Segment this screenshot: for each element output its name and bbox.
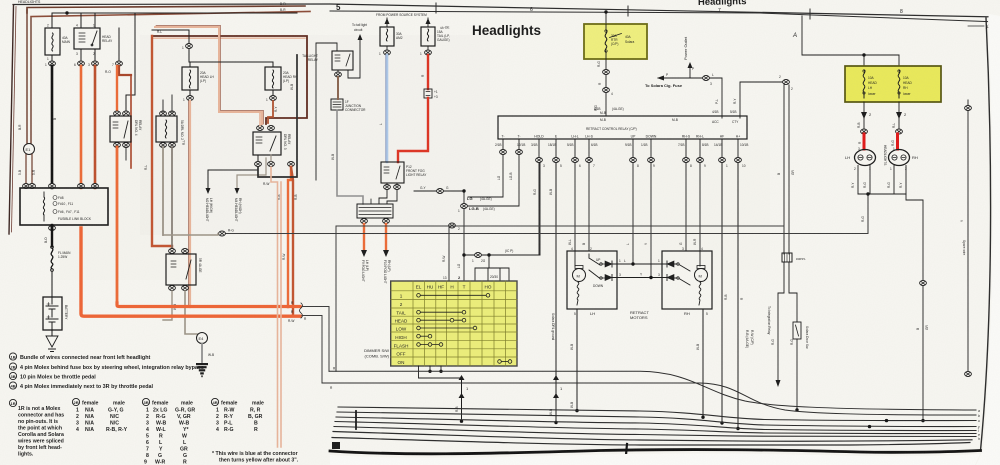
wire feeds above DRL NO.2 <box>163 95 172 112</box>
dimmer contact LOW <box>420 327 473 329</box>
wire below table HF drop <box>440 366 442 371</box>
terminals on fusible link block top <box>23 184 30 189</box>
wire thick black main feed <box>51 66 54 188</box>
wire below table EL drop <box>419 366 462 378</box>
wire drop to head relay pin1 <box>94 13 96 28</box>
wire orange feed DRL no4 <box>116 66 118 112</box>
white margin outside right frame edge <box>976 14 1000 465</box>
wire DRL3 to M4 headlight arrow <box>237 155 271 188</box>
wire LG branch <box>463 191 465 281</box>
connector pinout table 2R <box>72 398 127 433</box>
dimmer table header labels <box>394 285 492 365</box>
relay TAILLIGHT RELAY box <box>332 51 353 70</box>
wire LG-B horizontal to pin T2 <box>468 155 519 206</box>
fusible link block <box>20 188 108 225</box>
wire DRL3 orange out B <box>291 167 293 316</box>
wire G-Y node line <box>414 190 464 192</box>
wire G to RH motor <box>685 163 687 251</box>
pin stubs below retract relay <box>503 139 738 157</box>
wire R-G HOLD down to ICP <box>539 163 540 255</box>
bottom tick mid <box>626 444 627 455</box>
terminals 5R <box>169 249 176 254</box>
wire to tail light circuit with up arrow <box>348 38 360 78</box>
wire HO feed U-jog <box>475 255 509 281</box>
bus 1 break mark <box>300 303 303 318</box>
wire taillight relay feed <box>316 43 337 180</box>
dimmer contact ON <box>501 361 508 363</box>
wire L UP to motor link <box>632 163 634 264</box>
wire bundle line 3 <box>336 417 976 431</box>
wire DRL3 to M2 headlight arrow <box>208 155 258 188</box>
terminal above 20A fuse LH <box>186 44 193 49</box>
page ref A at far right <box>968 25 984 27</box>
terminal on line A <box>449 223 456 228</box>
wire thick orange relay out 1 <box>80 66 83 188</box>
wire blue L down to fog relay <box>386 55 389 162</box>
relay P12 front fog box <box>381 162 404 183</box>
wire FL MAIN to battery <box>51 271 53 297</box>
wire drop to 15A fuse <box>427 18 429 27</box>
dimmer contact HIGH <box>420 335 428 337</box>
inline connector on tail wire <box>424 89 432 98</box>
fusible link FL MAIN <box>51 248 53 269</box>
wire red R to LH bulb <box>863 134 866 149</box>
motor link wire upper <box>612 263 667 265</box>
battery <box>43 297 62 330</box>
wire W-R to RH motor <box>699 163 701 251</box>
legend paragraph 1R <box>9 399 64 457</box>
wire R-O down <box>130 75 132 168</box>
dimmer contact HEAD <box>420 319 462 321</box>
node dot ICP <box>462 253 465 256</box>
fuse 20A HEAD LH box <box>182 67 198 90</box>
wire below table HU drop <box>429 366 431 371</box>
white margin below bottom heavy curve <box>330 454 980 465</box>
bundle tick mark left <box>355 411 357 429</box>
orange bus 2 lower from fusible link block <box>81 228 300 316</box>
retract motor RH box <box>662 251 712 309</box>
wire RH bulb to spare run <box>906 194 923 421</box>
terminal below relay pin2 <box>94 49 96 61</box>
wire orange fog LH drop <box>363 224 365 250</box>
terminal 2-2 top right <box>783 80 790 85</box>
RH motor worm line <box>699 282 701 305</box>
page frame top border line <box>13 4 998 17</box>
wire RH fuse out with connector arrow <box>898 102 900 129</box>
legend note circled 2B <box>9 363 16 370</box>
wires P12 to junction block <box>379 183 387 204</box>
terminals DRL NO.4 <box>114 111 121 116</box>
headlight LH bulb <box>855 150 876 166</box>
orange bus 1 upper from DRL4 <box>117 303 300 307</box>
wire DRL2 out to 5R relay <box>171 147 173 248</box>
fuse 40A MAIN box <box>45 28 60 55</box>
wire orange main loop x152 <box>152 36 172 251</box>
terminals DRL NO.2 <box>160 111 167 116</box>
retract control relay box <box>498 116 747 139</box>
relay DRL NO.2 box <box>156 116 177 142</box>
wire thick red-orange relay out 2 <box>94 66 97 188</box>
wire black from fuse top bus <box>152 30 189 43</box>
wire RH motor pin5 to bundle <box>702 309 704 417</box>
grid tick between 5 and 6 <box>435 3 437 13</box>
wire to second terminal <box>605 75 607 87</box>
wire bundle line 1 <box>338 407 976 421</box>
wire B-R top horizontal 1 <box>27 6 305 13</box>
chassis ground E4 <box>196 363 208 377</box>
wire bundle line 5 <box>334 427 976 437</box>
grid tick between 6 and 7 <box>627 6 629 16</box>
wire black bus from DRL3 up right <box>258 55 297 177</box>
terminal below 15A <box>427 46 429 50</box>
wire R-L pale from 20A LH down <box>189 101 191 307</box>
RH motor symbol <box>695 269 708 282</box>
wire R-L pale companion <box>152 37 305 39</box>
legend note circled 4B <box>9 382 16 389</box>
wire W-L to LH motor <box>574 163 576 251</box>
line A left drop <box>335 226 337 371</box>
terminals DRL NO.3 top <box>257 126 264 131</box>
wire to solara cig fuse <box>658 78 722 118</box>
conn. connector box <box>782 253 792 262</box>
wires below conn <box>778 262 797 385</box>
wire bundle line 4 <box>335 422 976 434</box>
junction connector 1F box <box>331 99 343 110</box>
wire pale R-L pair top <box>155 27 262 124</box>
splice dot on bundle right 1 <box>868 425 871 428</box>
wire orange fog RH drop <box>385 224 387 250</box>
wire drops into 10A fuse box <box>864 55 899 70</box>
wire R-W to dimmer H col <box>448 226 450 281</box>
wire door sw to bus <box>796 339 798 410</box>
RH switch contacts <box>677 263 679 265</box>
wire B-R top horizontal 2 <box>31 12 310 17</box>
terminal LG-B <box>461 204 468 209</box>
LH switch contacts <box>600 263 602 265</box>
splice dot on bundle right 2 <box>885 419 888 422</box>
page frame second top line <box>330 11 998 22</box>
wire bundle line 6 <box>333 432 972 442</box>
wire W-B E pin down to bundle <box>555 163 557 423</box>
motor link wire lower <box>612 277 667 279</box>
wire fuse F1 to terminal <box>51 55 53 61</box>
wire from top frame to 40A RTR fuse <box>605 12 607 24</box>
wire to retract relay box <box>605 93 607 116</box>
long wire lower folding into bundle <box>322 383 976 415</box>
wire orange DRL4 out to bus <box>116 147 119 304</box>
terminal x119 <box>118 28 120 61</box>
wire B to LH motor <box>588 163 590 251</box>
wire thin from bus2 to dimmer feed <box>302 316 322 384</box>
wire A feed to headlight fuses <box>802 16 899 55</box>
wire CTY from 2-2 oval <box>740 82 783 118</box>
fuse 40A RTR yellow box <box>584 24 647 59</box>
dimmer contact row 1 <box>417 294 512 364</box>
wire Y DOWN to motor link <box>650 163 652 278</box>
wire drop to 30A fuse <box>386 18 388 27</box>
wire DRL3 top feed from pale <box>260 112 262 126</box>
relay DRL NO.4 box <box>110 116 131 142</box>
wire DRL2 out gray to E4 path <box>162 147 164 235</box>
wire taillight relay down <box>337 70 339 72</box>
fuse 30A AM2 box <box>380 27 394 46</box>
connector E1 <box>24 144 35 155</box>
ground battery open triangle <box>46 336 58 352</box>
wire down to ground bus <box>867 194 869 234</box>
pin terminals below retract relay <box>500 150 507 155</box>
LH diodes <box>605 261 612 267</box>
fuse 20A HEAD RH box <box>265 67 281 90</box>
inline connector pair on dimmer ground <box>461 378 463 421</box>
wire from 20A RH to DRL3 relay <box>268 101 273 123</box>
wire bundle line 2 <box>337 412 976 427</box>
terminal 1I below fuse <box>49 61 56 66</box>
node dot on top bus <box>65 11 68 14</box>
dimmer contact FLASH <box>420 344 439 346</box>
fuse box 10A HEAD LH RH yellow <box>845 66 941 102</box>
junction block multi-bus <box>357 204 393 218</box>
wire 1F down gray <box>337 110 363 204</box>
wire drop to head relay pin4 <box>80 13 82 28</box>
wire battery to ground <box>51 330 53 336</box>
terminal below 20A LH <box>189 90 191 95</box>
wires E1 to fusible link block <box>26 155 32 187</box>
relay HEAD RELAY box <box>74 28 100 49</box>
wire R-L maroon top horizontal <box>152 36 307 124</box>
relay 5R box <box>166 254 196 285</box>
line A upper bus <box>336 225 784 227</box>
fuse 15A TAIL box <box>421 27 435 46</box>
bundle wire code letters <box>977 409 980 441</box>
LH motor symbol <box>573 269 586 282</box>
wire drop to fuse F1 <box>51 13 53 28</box>
bus joining 20A fuse tops <box>189 49 273 67</box>
wire LH motor pin5 to bundle <box>576 309 578 411</box>
wire 5R to E4 <box>185 291 197 334</box>
grid tick between 7 and 8 <box>809 9 811 19</box>
terminal below block <box>49 226 56 231</box>
legend note circled 1B <box>9 353 204 390</box>
wire H+ down to bundle <box>737 163 739 429</box>
fuse 10A HEAD LH <box>863 70 865 98</box>
terminals below P12 <box>384 185 391 190</box>
wire thin from bus1 to dimmer feed <box>302 307 329 372</box>
bus wire top y13 <box>52 12 297 14</box>
wire relay to 1F <box>337 77 339 99</box>
terminal below relay pin3 <box>80 49 82 61</box>
fuse 10A HEAD RH <box>898 70 900 98</box>
connector pinout table 4R <box>211 398 264 433</box>
pin numbers next to terminals <box>543 164 746 168</box>
wire HF down to bundle <box>721 163 723 423</box>
terminal on ground bus left end <box>219 231 226 236</box>
RH diodes <box>667 261 674 267</box>
bulb common wire <box>858 193 906 195</box>
connector E4 <box>197 333 208 344</box>
long pale pink pair to throttle connectors <box>271 167 278 447</box>
wire LG horizontal to pin T1 <box>468 155 503 197</box>
legend note circled 3B <box>9 372 16 379</box>
wire LH fuse out with connector arrow <box>863 102 865 129</box>
headlight RH bulb <box>889 150 910 166</box>
wire red R-G to RH bulb <box>896 134 899 149</box>
spare wire vertical <box>967 100 969 375</box>
terminal below 20A RH <box>272 90 274 95</box>
connector pinout table 3R <box>142 398 195 465</box>
wire orange R-O from terminal 7 <box>119 66 131 75</box>
dimmer contact TAIL <box>420 311 462 313</box>
dimmer switch table yellow <box>391 281 517 366</box>
bottom heavy border curve <box>330 450 981 454</box>
wire ICP run <box>464 160 540 255</box>
wire fuse to terminal <box>605 59 607 69</box>
ground bus line B <box>222 233 868 235</box>
Solara Door Sw box <box>793 322 801 339</box>
terminal below 30A <box>386 46 388 50</box>
pin fraction labels <box>495 143 748 147</box>
wire DRL4 pin out thin <box>125 147 127 160</box>
wire bundle line 7 <box>332 438 970 446</box>
wire DRL3 orange out A <box>288 167 291 307</box>
wire E4 to ground <box>201 344 203 363</box>
wires B and GR double vertical down <box>784 85 789 254</box>
relay DRL NO.3 box <box>253 132 281 155</box>
page frame left border <box>9 5 14 234</box>
wire red to fog relay <box>398 98 428 162</box>
red footnote <box>212 451 299 464</box>
page frame left border inner <box>12 7 17 233</box>
wire B-R pair down to E1 <box>27 10 31 143</box>
page frame right border <box>981 18 991 451</box>
terminals DRL NO.3 bottom <box>255 162 262 167</box>
wire block to FL MAIN <box>51 225 53 246</box>
wire orange from 15A tail <box>427 55 429 89</box>
long wire R upper folding into bundle <box>329 371 976 410</box>
retract motor LH box <box>567 251 617 309</box>
wire tan from DRL2 joining bus <box>163 234 218 236</box>
wire drop x135 <box>126 13 135 112</box>
wires below LH bulb <box>858 166 870 195</box>
LH motor worm line <box>577 282 579 305</box>
bundle end block <box>332 442 340 449</box>
pin labels bottom row <box>501 135 740 139</box>
terminals below junction block <box>361 219 368 224</box>
wires below RH bulb <box>894 166 906 195</box>
